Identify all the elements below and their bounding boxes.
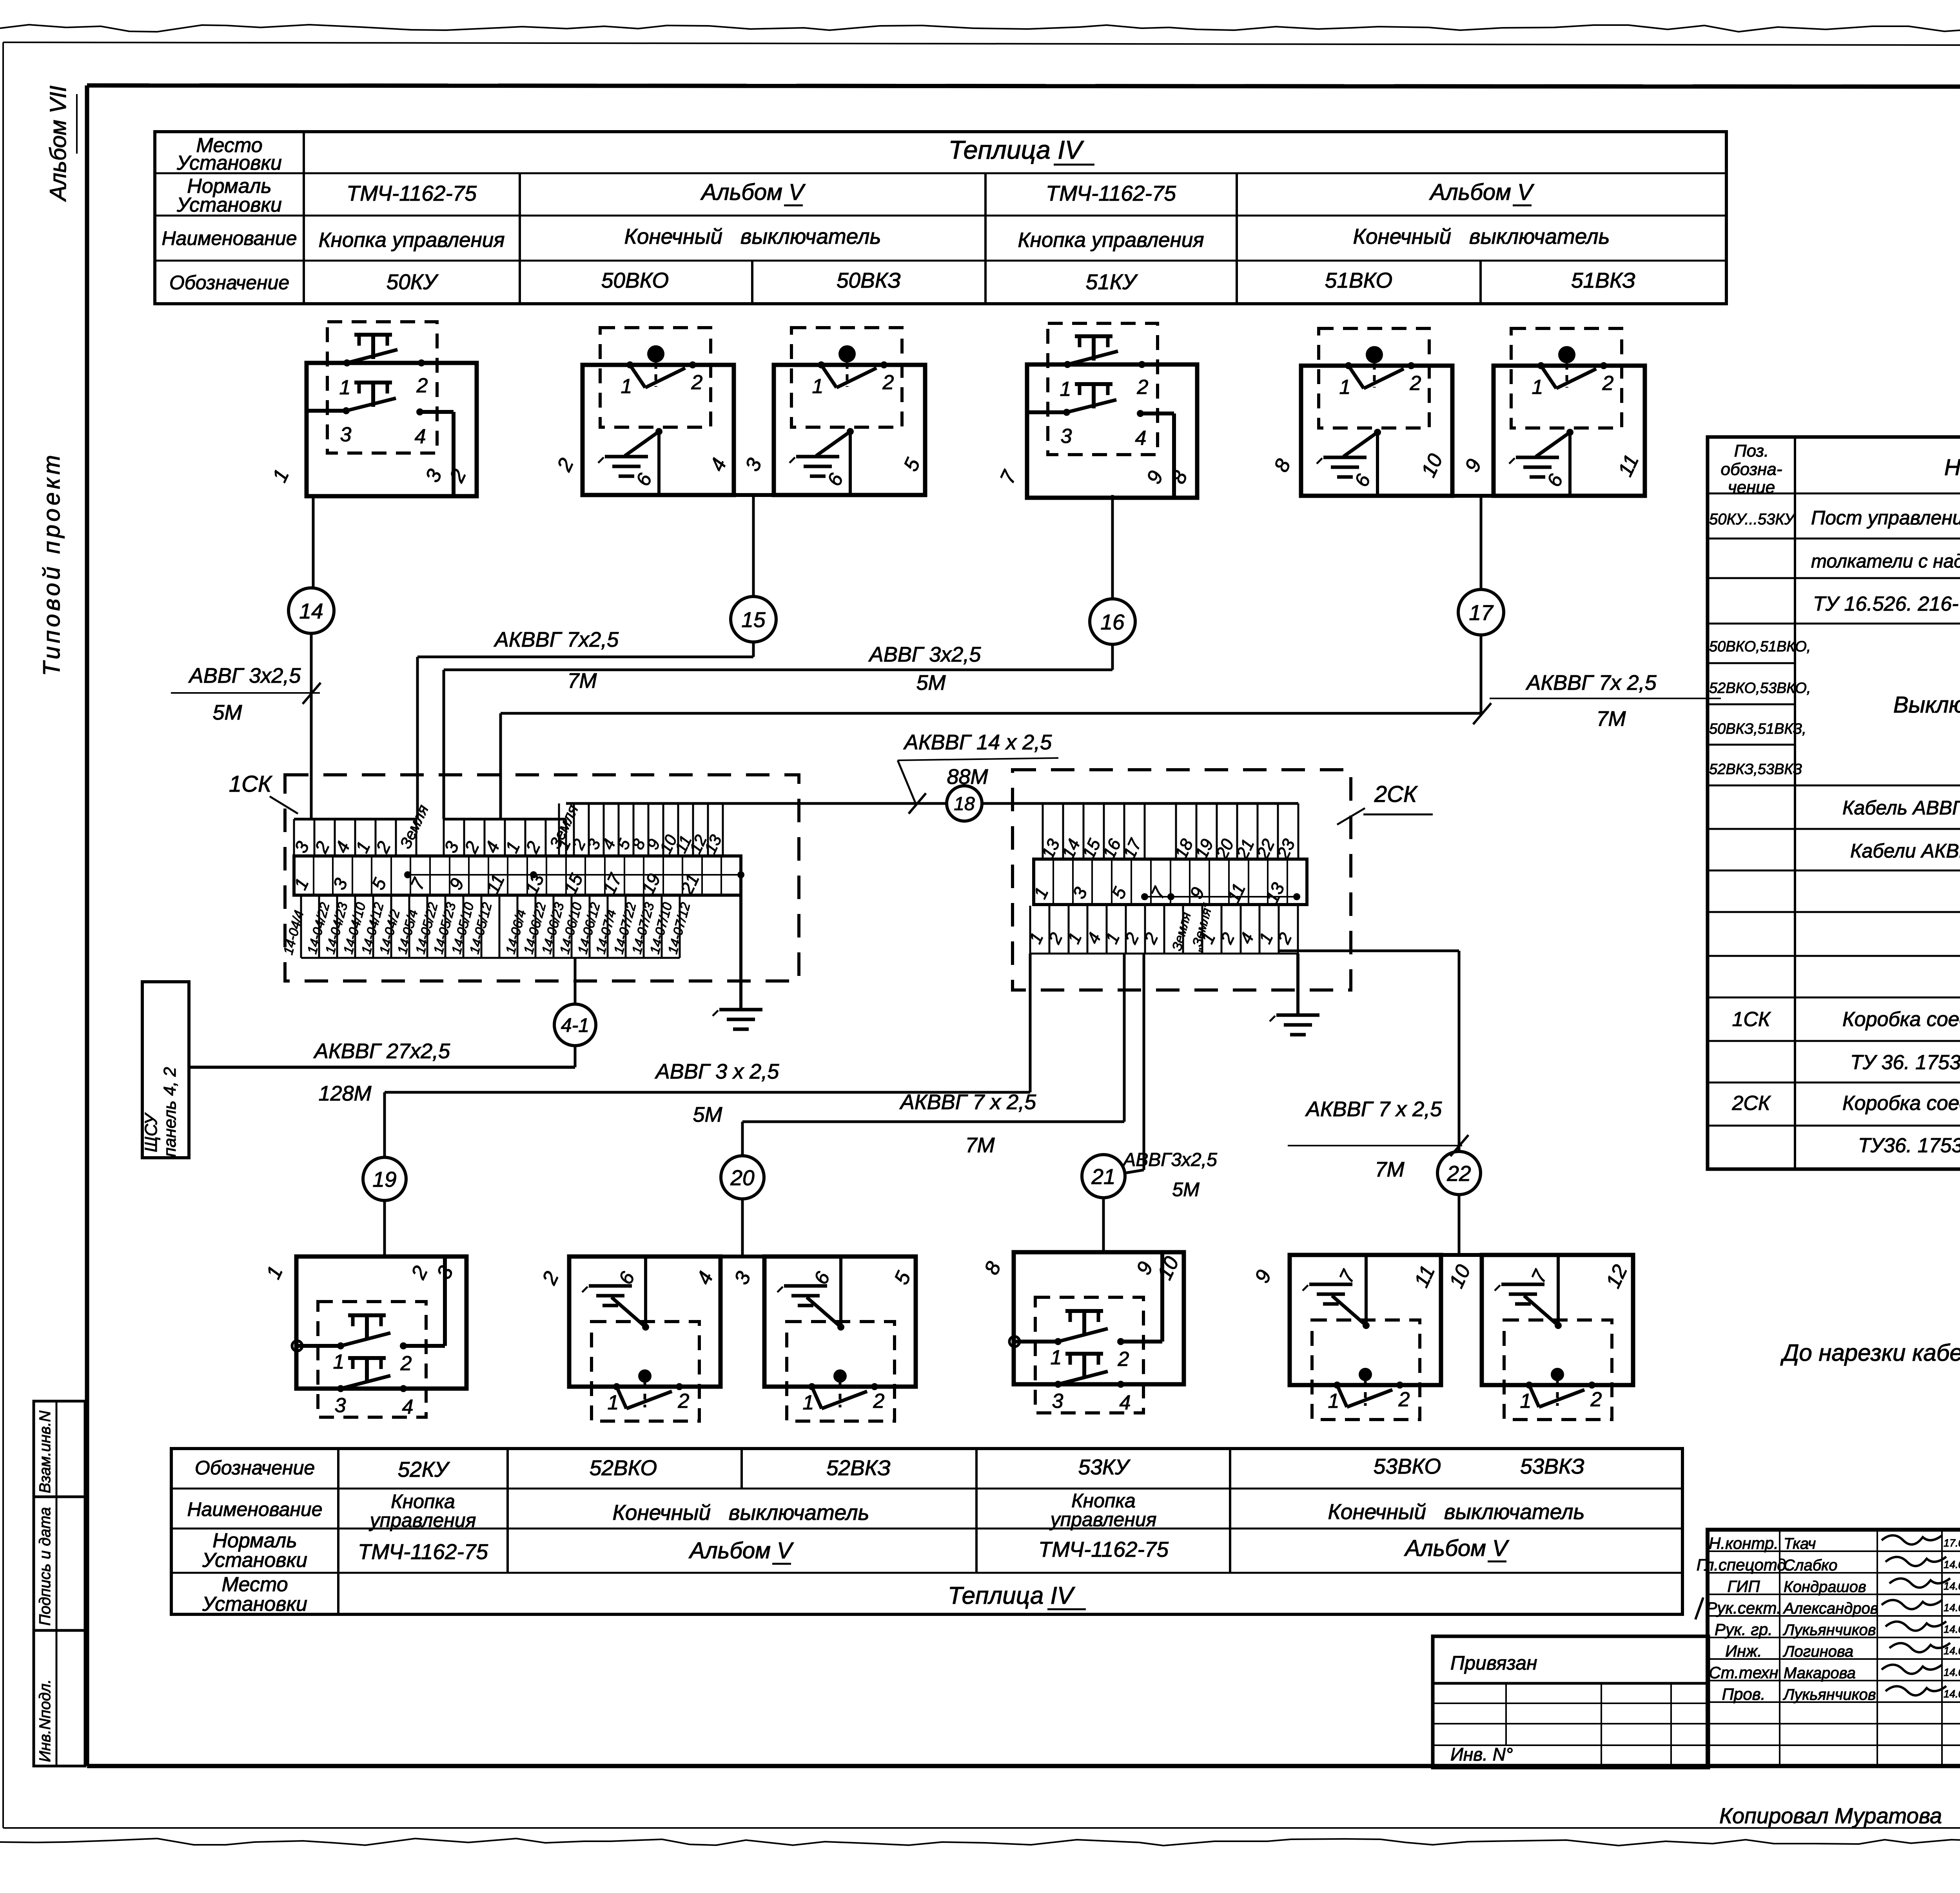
svg-text:1: 1 — [1060, 378, 1071, 401]
1SK incoming wire tags group B — [440, 802, 582, 856]
1SK internal ground jumper — [404, 871, 744, 878]
wire 14x2,5 bus to node 18 — [566, 802, 947, 805]
svg-text:АКВВГ 14 х 2,5: АКВВГ 14 х 2,5 — [903, 731, 1052, 754]
svg-text:7М: 7М — [965, 1133, 995, 1157]
svg-text:1: 1 — [812, 375, 824, 398]
wire 2SK to node 21 (AVVG 3x2,5) — [1125, 954, 1144, 1173]
wire 50KU to node 14 — [312, 496, 315, 588]
svg-text:2: 2 — [1590, 1388, 1602, 1411]
svg-text:1: 1 — [608, 1391, 619, 1414]
margin label Album VII — [45, 85, 77, 202]
svg-text:88М: 88М — [947, 765, 988, 789]
wire node 4-1 to ShchSU panel — [189, 1046, 575, 1067]
svg-text:15: 15 — [741, 607, 766, 632]
svg-text:2СК: 2СК — [1731, 1092, 1771, 1115]
svg-text:АВВГ3х2,5: АВВГ3х2,5 — [1122, 1150, 1217, 1170]
svg-text:Коробка соединительная КСК-16: Коробка соединительная КСК-16 — [1842, 1092, 1960, 1115]
junction box 2SK dashed outline — [1013, 770, 1351, 990]
svg-text:51ВКЗ: 51ВКЗ — [1571, 268, 1635, 292]
svg-text:3: 3 — [335, 1394, 346, 1417]
svg-text:Кнопка управления: Кнопка управления — [318, 228, 505, 252]
svg-text:51КУ: 51КУ — [1086, 270, 1138, 294]
svg-text:обозна-: обозна- — [1721, 460, 1782, 479]
svg-text:Конечный выключатель: Конечный выключатель — [1328, 1500, 1584, 1524]
node 17 cable marker — [1458, 589, 1504, 635]
svg-text:Поз.: Поз. — [1734, 441, 1769, 461]
svg-text:16: 16 — [1100, 610, 1125, 634]
row TU 36.1753-75 (2) — [1858, 1134, 1960, 1157]
svg-text:Слабко: Слабко — [1784, 1557, 1837, 1574]
svg-text:4-1: 4-1 — [561, 1014, 589, 1036]
svg-text:52КУ: 52КУ — [398, 1457, 450, 1481]
cable label AKVVG 7x2,5 7M (top right) — [1473, 671, 1721, 731]
svg-text:Пост управления кнопочный П: Пост управления кнопочный ПКЕ-222-2, — [1811, 507, 1960, 529]
svg-text:14.01.86: 14.01.86 — [1944, 1666, 1960, 1678]
svg-text:АВВГ 3 х 2,5: АВВГ 3 х 2,5 — [655, 1060, 780, 1083]
stray slash mark — [1695, 1597, 1703, 1619]
svg-text:2: 2 — [1410, 372, 1421, 395]
svg-text:Логинова: Логинова — [1782, 1643, 1853, 1660]
svg-text:53КУ: 53КУ — [1078, 1455, 1131, 1479]
svg-text:1: 1 — [1339, 376, 1351, 399]
node 18 cable marker — [947, 786, 982, 821]
wire 1SK to node 4-1 — [574, 958, 577, 1004]
svg-text:Установки: Установки — [202, 1549, 307, 1572]
row pushbutton post PKE-222-2 — [1709, 504, 1960, 529]
svg-text:Рук.сект.: Рук.сект. — [1706, 1599, 1781, 1617]
svg-text:53ВКО: 53ВКО — [1374, 1454, 1441, 1478]
svg-text:ТУ 36. 1753-75: ТУ 36. 1753-75 — [1850, 1051, 1960, 1074]
cable label AVVG 3x2,5 5M (top middle) — [868, 643, 981, 694]
bottom table normal values — [358, 1536, 1510, 1564]
limit switch 50VKZ — [741, 328, 925, 495]
title block signature roles — [1697, 1534, 1960, 1703]
node 16 cable marker — [1090, 599, 1135, 644]
svg-text:ТМЧ-1162-75: ТМЧ-1162-75 — [358, 1539, 488, 1564]
svg-text:ТМЧ-1162-75: ТМЧ-1162-75 — [1046, 181, 1176, 205]
svg-text:Кабель АВВГ 3х2,5 0,66 ГОСТ: Кабель АВВГ 3х2,5 0,66 ГОСТ 16442-80 — [1842, 797, 1960, 819]
svg-text:Лукьянчиков: Лукьянчиков — [1782, 1686, 1876, 1703]
svg-text:Александров: Александров — [1783, 1600, 1878, 1617]
title block signatures — [1882, 1535, 1950, 1695]
svg-text:Конечный выключатель: Конечный выключатель — [624, 224, 881, 248]
svg-text:14.01.86: 14.01.86 — [1944, 1623, 1960, 1635]
wire 50VKO-50VKZ rail bridge — [734, 493, 774, 497]
top table header texts — [162, 134, 297, 294]
cable label AKVVG 7x2,5 7M (node 22) — [1288, 1097, 1468, 1181]
svg-text:52ВКО,53ВКО,: 52ВКО,53ВКО, — [1709, 680, 1811, 696]
junction box 1SK dashed outline — [285, 775, 799, 981]
limit switch 52VKZ — [730, 1257, 916, 1421]
cable label AKVVG 14x2,5 88M — [898, 731, 1058, 814]
sheet torn top edge — [0, 25, 1960, 32]
svg-text:53ВКЗ: 53ВКЗ — [1520, 1454, 1584, 1478]
svg-text:Выключатель конечный: Выключатель конечный — [1893, 692, 1960, 718]
wire node 20 to 52VK rail — [741, 1199, 744, 1257]
svg-text:1СК: 1СК — [1732, 1008, 1771, 1031]
svg-text:2: 2 — [882, 371, 894, 394]
svg-text:Наименование: Наименование — [162, 227, 297, 249]
row 1SK box KSK-32 — [1732, 1008, 1960, 1031]
svg-text:Теплица IV: Теплица IV — [948, 1582, 1076, 1609]
svg-text:50ВКЗ: 50ВКЗ — [837, 268, 901, 292]
2SK incoming wire tags group D — [1038, 803, 1298, 861]
wire 52VKO-52VKZ rail bridge — [722, 1255, 764, 1258]
node 15 cable marker — [731, 597, 776, 642]
svg-text:14.01.86: 14.01.86 — [1944, 1688, 1960, 1700]
svg-text:1: 1 — [333, 1351, 345, 1373]
svg-text:Гл.спецотд.: Гл.спецотд. — [1697, 1556, 1791, 1574]
node 19 cable marker — [363, 1157, 406, 1200]
svg-text:Коробка соединительная КСК-32: Коробка соединительная КСК-32 — [1842, 1008, 1960, 1031]
svg-text:17.01.86: 17.01.86 — [1944, 1537, 1960, 1549]
svg-text:Альбом V: Альбом V — [1429, 180, 1535, 205]
svg-text:Кондрашов: Кондрашов — [1784, 1578, 1866, 1596]
svg-text:22: 22 — [1446, 1161, 1471, 1186]
svg-text:52ВКЗ: 52ВКЗ — [826, 1456, 891, 1480]
svg-text:АВВГ 3х2,5: АВВГ 3х2,5 — [188, 664, 301, 687]
svg-text:7М: 7М — [1375, 1158, 1404, 1181]
svg-text:АКВВГ 27х2,5: АКВВГ 27х2,5 — [313, 1039, 450, 1063]
wire 51VK rail to node 17 — [1480, 496, 1483, 589]
svg-text:Кнопка управления: Кнопка управления — [1018, 228, 1204, 252]
svg-text:4: 4 — [1120, 1391, 1131, 1414]
svg-text:1: 1 — [1051, 1346, 1062, 1369]
svg-text:Конечный выключатель: Конечный выключатель — [1353, 224, 1610, 248]
rows limit switch designators — [1709, 638, 1811, 778]
svg-text:Инв.Nподл.: Инв.Nподл. — [36, 1679, 54, 1762]
limit switch 53VKZ — [1445, 1255, 1633, 1420]
wire node 21 to 53KU — [1102, 1198, 1105, 1252]
2SK incoming wire tags group E — [1171, 803, 1299, 862]
svg-text:Подпись и дата: Подпись и дата — [36, 1507, 54, 1626]
svg-text:5М: 5М — [212, 701, 242, 724]
svg-text:Альбом V: Альбом V — [1404, 1536, 1510, 1561]
cable label AVVG 3x2,5 5M (node 21) — [1122, 1150, 1217, 1200]
top table row normal values — [347, 180, 1535, 205]
svg-text:АВВГ 3х2,5: АВВГ 3х2,5 — [868, 643, 981, 666]
svg-text:Инж.: Инж. — [1725, 1642, 1762, 1660]
svg-text:5М: 5М — [916, 671, 946, 694]
bottom table Teplica IV — [948, 1582, 1086, 1609]
label 2SK — [1337, 781, 1433, 825]
svg-text:14.01.86: 14.01.86 — [1944, 1559, 1960, 1570]
svg-text:управления: управления — [369, 1509, 476, 1531]
svg-text:4: 4 — [402, 1396, 414, 1418]
svg-text:2: 2 — [416, 374, 428, 397]
svg-text:1СК: 1СК — [229, 771, 272, 797]
2SK terminal strip — [1030, 859, 1307, 906]
svg-text:18: 18 — [954, 794, 975, 814]
top table row name values — [318, 224, 1610, 252]
svg-text:Ст.техн: Ст.техн — [1709, 1663, 1778, 1682]
row cable AVVG 3x2,5 — [1842, 796, 1960, 822]
svg-text:Конечный выключатель: Конечный выключатель — [612, 1500, 869, 1525]
svg-text:Наименование: Наименование — [187, 1498, 322, 1520]
svg-text:чение: чение — [1728, 478, 1775, 497]
svg-text:1: 1 — [803, 1391, 814, 1414]
wire 51VKO-51VKZ rail bridge — [1452, 494, 1494, 498]
svg-text:1: 1 — [339, 376, 351, 399]
svg-text:50КУ...53КУ: 50КУ...53КУ — [1709, 511, 1796, 528]
svg-text:Привязан: Привязан — [1450, 1652, 1537, 1674]
svg-text:Альбом VII: Альбом VII — [45, 85, 71, 202]
wire 53VKO-53VKZ rail bridge — [1441, 1253, 1482, 1257]
limit switch 52VKO — [538, 1257, 720, 1421]
svg-text:51ВКО: 51ВКО — [1325, 268, 1392, 292]
svg-text:7М: 7М — [1596, 707, 1626, 731]
wire node 14 to box 1SK — [310, 633, 313, 819]
svg-text:1: 1 — [1520, 1390, 1532, 1412]
svg-text:АКВВГ 7 х 2,5: АКВВГ 7 х 2,5 — [1305, 1097, 1442, 1121]
top table row designation values — [387, 268, 1635, 294]
svg-text:1: 1 — [1532, 376, 1543, 399]
svg-text:АКВВГ 7х 2,5: АКВВГ 7х 2,5 — [1525, 671, 1657, 694]
svg-text:Теплица IV: Теплица IV — [949, 135, 1085, 164]
svg-text:5М: 5М — [1172, 1179, 1200, 1200]
wire 2SK to node 20 (AKVVG 7x2,5) — [742, 954, 1124, 1156]
2SK internal ground jumper — [1141, 893, 1300, 900]
svg-text:Инв. N°: Инв. N° — [1450, 1744, 1513, 1764]
svg-text:толкатели с надписями „Открыт: толкатели с надписями „Открыть“,„Закрыть… — [1811, 551, 1960, 572]
label 1SK — [229, 771, 298, 814]
svg-text:4: 4 — [1135, 427, 1147, 450]
svg-text:5М: 5М — [693, 1103, 722, 1126]
bottom table name values — [369, 1490, 1585, 1531]
svg-text:14.01.86: 14.01.86 — [1944, 1602, 1960, 1614]
svg-text:19: 19 — [372, 1167, 396, 1191]
svg-text:Пров.: Пров. — [1722, 1685, 1766, 1703]
bottom table designation values — [398, 1454, 1584, 1481]
svg-text:1: 1 — [1328, 1390, 1339, 1412]
svg-text:Установки: Установки — [176, 152, 282, 174]
svg-text:3: 3 — [1052, 1390, 1063, 1412]
push-button station 51KU — [996, 323, 1197, 498]
binding table — [1433, 1636, 1708, 1768]
wire node 17 to box 1SK — [501, 635, 1481, 819]
limit switch 50VKO — [553, 328, 734, 495]
top table row Teplica IV — [949, 135, 1094, 165]
svg-text:панель 4, 2: панель 4, 2 — [160, 1067, 180, 1157]
2SK outgoing cable tags — [1025, 901, 1298, 954]
svg-text:50ВКО,51ВКО,: 50ВКО,51ВКО, — [1709, 638, 1811, 655]
svg-text:Обозначение: Обозначение — [169, 272, 289, 294]
title block columns — [1780, 1530, 1960, 1766]
svg-text:2: 2 — [1137, 376, 1149, 399]
cable label AKVVG 27x2,5 128M — [313, 1039, 450, 1105]
svg-text:Альбом V: Альбом V — [688, 1538, 794, 1563]
wire node 19 to 52KU — [383, 1200, 386, 1257]
title block frame — [1708, 1530, 1960, 1766]
cable label AVVG 3x2,5 5M (lower left) — [655, 1060, 780, 1126]
svg-text:50КУ: 50КУ — [387, 270, 439, 294]
svg-text:21: 21 — [1091, 1164, 1115, 1189]
1SK terminal strip — [290, 856, 741, 898]
svg-text:17: 17 — [1469, 600, 1494, 625]
cable label AKVVG 7x2,5 7M (lower middle) — [899, 1090, 1036, 1157]
svg-text:Копировал Муратова: Копировал Муратова — [1719, 1803, 1942, 1828]
svg-text:1: 1 — [621, 375, 632, 398]
svg-text:управления: управления — [1049, 1509, 1157, 1530]
svg-text:2СК: 2СК — [1374, 781, 1418, 807]
wire 2SK to node 22 (AKVVG 7x2,5) — [1278, 951, 1459, 1151]
limit switch 51VKZ — [1461, 328, 1645, 496]
svg-text:2: 2 — [678, 1390, 690, 1412]
svg-text:ТМЧ-1162-75: ТМЧ-1162-75 — [347, 181, 477, 205]
svg-text:2: 2 — [1602, 372, 1614, 395]
svg-text:АКВВГ 7х2,5: АКВВГ 7х2,5 — [494, 628, 619, 651]
svg-text:Обозначение: Обозначение — [195, 1457, 315, 1479]
sheet torn bottom edge — [0, 1839, 1960, 1846]
svg-text:Макарова: Макарова — [1784, 1665, 1856, 1682]
push-button station 50KU — [268, 322, 477, 496]
svg-text:ЩСУ: ЩСУ — [142, 1112, 161, 1152]
svg-text:7М: 7М — [567, 669, 597, 693]
svg-text:Наименование: Наименование — [1944, 455, 1960, 480]
svg-text:Взам.инв.N: Взам.инв.N — [36, 1411, 54, 1493]
svg-text:Ткач: Ткач — [1784, 1535, 1816, 1552]
wire 2SK to node 19 (AVVG 3x2,5) — [385, 954, 1030, 1157]
1SK outgoing cable tags — [281, 895, 693, 958]
svg-text:128М: 128М — [318, 1082, 371, 1105]
2SK ground — [1270, 954, 1319, 1035]
svg-text:14: 14 — [299, 599, 323, 623]
limit switch 51VKO — [1270, 328, 1452, 496]
svg-text:2: 2 — [1118, 1348, 1129, 1371]
node 22 cable marker — [1437, 1151, 1481, 1195]
1SK ground — [713, 895, 762, 1029]
svg-text:АКВВГ 7 х 2,5: АКВВГ 7 х 2,5 — [899, 1090, 1036, 1114]
top table grid — [155, 132, 1726, 304]
svg-text:2: 2 — [1398, 1388, 1410, 1411]
svg-text:2: 2 — [873, 1390, 885, 1412]
svg-text:Установки: Установки — [176, 194, 282, 216]
cable label AVVG 3x2,5 5M (left) — [171, 664, 321, 724]
svg-text:Н.контр.: Н.контр. — [1709, 1534, 1779, 1552]
svg-text:Альбом V: Альбом V — [700, 180, 806, 205]
row limit switch merged — [1893, 692, 1960, 718]
1SK incoming wire tags group A — [290, 802, 432, 856]
limit switch 53VKO — [1250, 1255, 1441, 1420]
wire node 15 to box 1SK — [417, 642, 753, 819]
svg-text:20: 20 — [730, 1166, 755, 1190]
row TU 36.1753-75 (1) — [1850, 1051, 1960, 1074]
svg-text:3: 3 — [1061, 425, 1072, 448]
wire node 16 to box 1SK — [444, 644, 1112, 819]
svg-text:50ВКЗ,51ВКЗ,: 50ВКЗ,51ВКЗ, — [1709, 721, 1806, 737]
svg-text:2: 2 — [691, 371, 703, 394]
cable label AKVVG 7x2,5 7M (top left) — [494, 628, 619, 693]
wire 51KU to node 16 — [1111, 495, 1114, 599]
svg-text:ТМЧ-1162-75: ТМЧ-1162-75 — [1038, 1537, 1169, 1561]
wire node 22 to 53VK rail — [1458, 1195, 1461, 1255]
svg-text:ГИП: ГИП — [1727, 1577, 1760, 1596]
svg-text:Кабели АКВВГ ГОСТ1508-78: Кабели АКВВГ ГОСТ1508-78 — [1850, 840, 1960, 862]
ShchSU panel 4,2 box — [142, 982, 189, 1158]
svg-text:ТУ36. 1753-75: ТУ36. 1753-75 — [1858, 1134, 1960, 1157]
1SK incoming wire tags group C — [554, 803, 725, 856]
svg-text:Лукьянчиков: Лукьянчиков — [1782, 1621, 1876, 1639]
node 4-1 cable marker — [554, 1004, 596, 1046]
component list header — [1721, 441, 1960, 497]
margin stamp boxes — [34, 1401, 85, 1766]
bottom table header texts — [187, 1457, 322, 1616]
svg-text:Типовой проект: Типовой проект — [38, 452, 65, 676]
node 20 cable marker — [721, 1156, 764, 1199]
svg-text:52ВКЗ,53ВКЗ: 52ВКЗ,53ВКЗ — [1709, 761, 1802, 778]
node 21 cable marker — [1082, 1155, 1125, 1198]
component list table grid — [1708, 437, 1960, 1169]
svg-text:До нарезки кабелей длины тр: До нарезки кабелей длины трасс уточнить … — [1780, 1340, 1960, 1366]
wire node 18 cable 14x2,5 — [982, 802, 1043, 805]
svg-text:3: 3 — [340, 423, 352, 446]
wire 50VK rail to node 15 — [752, 495, 755, 597]
svg-text:Установки: Установки — [202, 1593, 307, 1616]
svg-text:2: 2 — [400, 1352, 412, 1375]
svg-text:ТУ 16.526. 216-78: ТУ 16.526. 216-78 — [1813, 593, 1960, 615]
bottom table grid — [171, 1449, 1682, 1614]
node 14 cable marker — [289, 588, 334, 633]
push-button station 53KU — [980, 1252, 1184, 1414]
svg-text:50ВКО: 50ВКО — [601, 268, 669, 292]
svg-text:Рук. гр.: Рук. гр. — [1715, 1620, 1773, 1639]
svg-text:52ВКО: 52ВКО — [590, 1456, 657, 1480]
push-button station 52KU — [262, 1257, 466, 1418]
row 2SK box KSK-16 — [1731, 1092, 1960, 1115]
svg-text:4: 4 — [415, 425, 426, 448]
